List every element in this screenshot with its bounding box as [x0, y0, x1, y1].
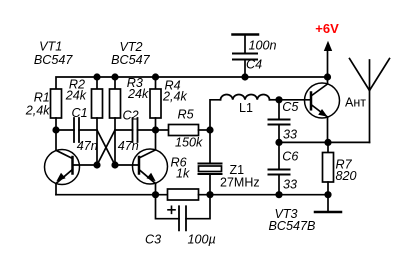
- svg-text:R5: R5: [178, 108, 195, 122]
- node R7 bottom rail: [324, 191, 331, 198]
- transistor VT2: [133, 149, 168, 184]
- capacitor C2: [133, 118, 138, 142]
- svg-text:C2: C2: [123, 109, 139, 123]
- svg-text:2,4k: 2,4k: [25, 104, 51, 118]
- power +6V arrow: [327, 51, 329, 77]
- transistor VT1: [45, 150, 80, 185]
- node R5 / Z1 / L1: [206, 126, 213, 133]
- svg-text:100n: 100n: [249, 39, 277, 53]
- node C4 on +V rail: [241, 73, 248, 80]
- wire cross diagonal b: [97, 130, 115, 165]
- resistor R5: [156, 129, 169, 131]
- svg-text:C1: C1: [72, 106, 88, 120]
- svg-text:820: 820: [336, 169, 357, 183]
- node R6 / Z1 / C3: [206, 191, 213, 198]
- node L1 / C5 / VT3 base: [275, 96, 282, 103]
- svg-text:VT1: VT1: [39, 39, 62, 53]
- resistor R7: [327, 142, 329, 152]
- svg-text:24k: 24k: [127, 87, 149, 101]
- wire bottom rail left: [56, 194, 168, 196]
- capacitor C4: [233, 33, 259, 36]
- svg-text:33: 33: [283, 128, 297, 142]
- svg-text:Ант: Ант: [345, 96, 366, 110]
- svg-text:+6V: +6V: [315, 21, 339, 36]
- capacitor C1: [74, 118, 79, 142]
- svg-text:24k: 24k: [65, 89, 87, 103]
- svg-text:R1: R1: [34, 91, 50, 105]
- svg-text:150k: 150k: [175, 136, 203, 150]
- resistor R3: [114, 77, 116, 89]
- svg-text:33: 33: [283, 178, 297, 192]
- resistor R6: [168, 189, 199, 200]
- wire R1 bottom lead: [55, 118, 57, 130]
- wire C2 to R4: [138, 129, 156, 131]
- capacitor C6: [278, 142, 280, 169]
- node VT2 emitter / C3: [152, 191, 159, 198]
- wire C1 to cross: [79, 129, 97, 131]
- svg-text:C5: C5: [282, 100, 299, 114]
- svg-text:2,4k: 2,4k: [162, 90, 188, 104]
- resistor R1: [51, 89, 62, 118]
- ground: [315, 211, 341, 214]
- svg-text:1k: 1k: [176, 167, 190, 181]
- svg-text:C6: C6: [282, 150, 298, 164]
- node VT1 collector / R1 / C1: [52, 126, 59, 133]
- inductor L1: [210, 100, 221, 130]
- wire mid right: [115, 129, 133, 131]
- node VT1 base: [93, 161, 100, 168]
- capacitor C5: [278, 100, 280, 119]
- antenna: [369, 60, 371, 142]
- svg-text:BC547: BC547: [111, 53, 151, 67]
- node R3 top on +V rail: [111, 73, 118, 80]
- node VT2 collector / R4 / R5: [152, 126, 159, 133]
- capacitor C3: [156, 195, 180, 219]
- svg-text:BC547: BC547: [34, 53, 74, 67]
- svg-text:BC547B: BC547B: [269, 219, 316, 233]
- node R2 top on +V rail: [93, 73, 100, 80]
- node C5 / C6 output: [275, 139, 282, 146]
- svg-text:100µ: 100µ: [188, 233, 216, 247]
- node R4 top on +V rail: [152, 73, 159, 80]
- wire mid left: [56, 129, 74, 131]
- node VT3 collector on +V rail: [324, 73, 331, 80]
- resistor R4: [155, 77, 157, 89]
- svg-text:C4: C4: [246, 58, 262, 72]
- svg-text:VT2: VT2: [119, 40, 142, 54]
- node VT3 emitter / R7: [324, 139, 331, 146]
- node C6 bottom rail: [275, 191, 282, 198]
- svg-text:47n: 47n: [118, 139, 139, 153]
- svg-text:L1: L1: [239, 101, 253, 115]
- svg-text:47n: 47n: [77, 139, 98, 153]
- svg-text:C3: C3: [145, 233, 161, 247]
- wire cross diagonal a: [97, 130, 115, 165]
- wire bottom rail right: [199, 194, 329, 196]
- svg-text:27MHz: 27MHz: [220, 176, 260, 190]
- node VT2 base: [111, 161, 118, 168]
- transistor VT3: [279, 99, 311, 101]
- C3 plus sign: [168, 206, 175, 213]
- wire top +V rail: [56, 77, 328, 89]
- wire output node: [279, 141, 370, 143]
- crystal Z1: [209, 130, 211, 164]
- resistor R2: [96, 77, 98, 89]
